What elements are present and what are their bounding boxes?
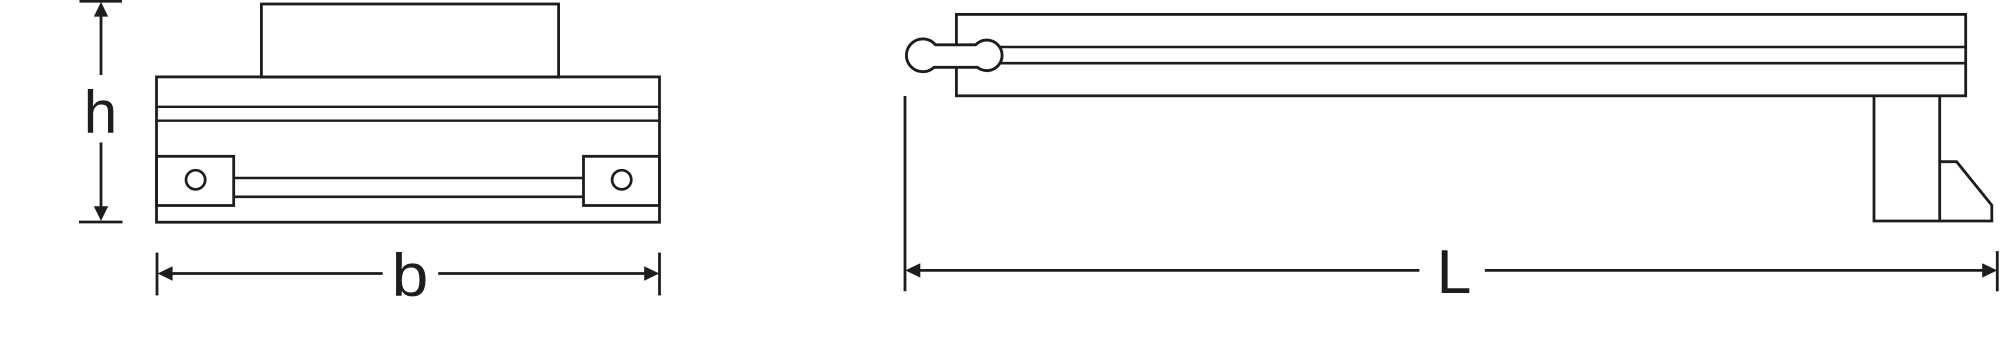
svg-text:L: L [1437,237,1472,307]
svg-text:h: h [84,77,118,145]
svg-text:b: b [392,242,429,309]
